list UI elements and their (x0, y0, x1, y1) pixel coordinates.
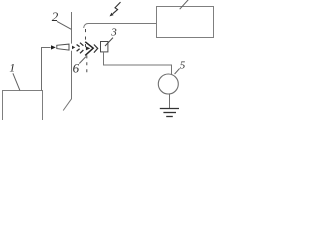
svg-text:6: 6 (73, 60, 80, 75)
svg-text:3: 3 (110, 27, 117, 39)
svg-text:1: 1 (9, 61, 15, 75)
svg-text:5: 5 (180, 59, 186, 71)
